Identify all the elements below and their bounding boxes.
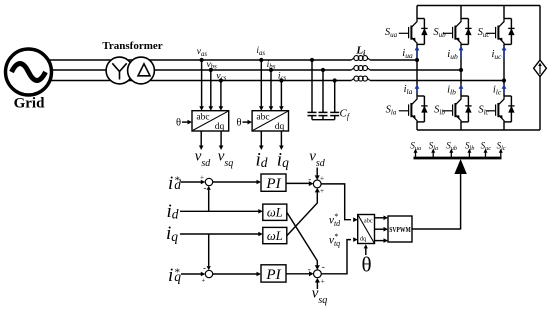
label i_la	[404, 84, 413, 96]
svg-text:i*d: i*d	[168, 173, 181, 194]
wire theta to U3	[364, 244, 368, 255]
svg-text:ibs: ibs	[267, 60, 276, 71]
PI controller PI1	[261, 174, 286, 192]
label v_sd	[195, 149, 212, 170]
node tap v_as on phase-a	[200, 58, 204, 62]
current arrow i_ua	[415, 46, 420, 59]
decoupling gain wL2	[263, 227, 287, 243]
svg-text:v*tq: v*tq	[329, 232, 340, 248]
svg-text:-: -	[308, 174, 311, 184]
svg-text:ωL: ωL	[267, 229, 283, 243]
svg-text:iua: iua	[402, 48, 413, 60]
wire U3 to SVPWM phase-a	[375, 216, 389, 221]
label v_sd feedforward	[309, 149, 326, 170]
PI controller PI2	[261, 265, 286, 283]
svg-text:abc: abc	[196, 113, 209, 123]
label i_q	[277, 149, 289, 170]
current source DC link	[534, 60, 547, 77]
wire i_d output of U2	[259, 131, 264, 150]
transistor S_lb with freewheel diode	[443, 96, 472, 122]
wire phase-b inductor to inverter leg b	[370, 69, 461, 71]
capacitor Cf phase-b	[319, 112, 328, 119]
label theta input U2	[236, 118, 241, 129]
svg-text:Sub: Sub	[433, 27, 446, 39]
wire v_sq output of U1	[219, 131, 224, 150]
wire U3 to SVPWM phase-b	[375, 227, 389, 232]
gate signal arrow S_ua	[414, 149, 418, 157]
abc-dq transform U2	[252, 111, 288, 132]
label i_ua	[402, 48, 413, 60]
current arrow i_lb	[459, 84, 464, 93]
label v_tq*	[329, 232, 340, 248]
svg-text:ilb: ilb	[447, 85, 456, 97]
svg-text:Sua: Sua	[410, 141, 421, 153]
label v_sq	[218, 149, 234, 170]
svg-text:Suc: Suc	[481, 141, 492, 153]
wire leg-c lower-IGBT to bottom bus	[503, 122, 505, 130]
wire leg-c top drop	[503, 6, 505, 19]
label theta input U1	[176, 118, 181, 129]
wire leg-a lower-IGBT to bottom bus	[416, 122, 418, 130]
svg-text:ias: ias	[256, 46, 265, 57]
label SUM4 plus	[321, 277, 325, 286]
svg-text:vas: vas	[197, 47, 208, 58]
svg-text:+: +	[320, 173, 324, 182]
label theta input U3	[361, 253, 371, 277]
inductor Li phase-a	[351, 56, 370, 61]
node tap i_bs on phase-b	[269, 68, 273, 72]
label SUM1 minus	[204, 183, 207, 193]
svg-text:Slb: Slb	[434, 105, 445, 117]
label v_sq feedforward	[312, 286, 328, 307]
SVPWM modulator	[388, 216, 412, 242]
svg-text:+: +	[200, 174, 204, 182]
summer SUM2	[205, 270, 212, 277]
label v_as	[197, 47, 208, 58]
label i_as	[256, 46, 265, 57]
label S_la	[386, 105, 397, 117]
svg-text:Suc: Suc	[478, 27, 491, 39]
svg-text:PI: PI	[265, 267, 281, 283]
node phase-a / leg-a junction	[415, 58, 419, 62]
svg-text:Slb: Slb	[465, 141, 474, 153]
label SUM2 plus	[201, 276, 205, 284]
svg-text:SVPWM: SVPWM	[389, 226, 411, 234]
svg-text:iuc: iuc	[491, 49, 502, 61]
svg-text:dq: dq	[215, 122, 225, 132]
svg-text:iq: iq	[277, 149, 289, 170]
svg-text:θ: θ	[361, 253, 371, 277]
node junction cap-c on phase-c	[333, 78, 337, 82]
transistor S_la with freewheel diode	[399, 96, 428, 122]
wire v_bs sense down to abc-dq block U1	[209, 70, 214, 111]
wire leg-a phase to lower IGBT	[416, 60, 418, 96]
wire leg-c phase to lower IGBT	[503, 81, 505, 97]
gate signal arrow S_uc	[484, 149, 488, 157]
label i_q* reference	[168, 265, 181, 286]
svg-text:-: -	[204, 183, 207, 193]
label i_d	[166, 201, 178, 222]
abc-dq transform U1	[192, 111, 229, 132]
wire capacitor star bus	[312, 119, 335, 121]
label i_lb	[447, 85, 456, 97]
wire SVPWM output to gates	[412, 174, 461, 230]
current arrow i_uc	[502, 46, 507, 59]
svg-text:abc: abc	[256, 113, 269, 123]
inductor Li phase-b	[351, 66, 370, 71]
gate signal arrow S_lb	[467, 149, 471, 157]
svg-text:Sla: Sla	[429, 141, 438, 153]
svg-text:+: +	[320, 186, 324, 195]
label SUM3 plus top	[320, 173, 324, 182]
summer SUM3	[313, 180, 321, 188]
label SUM3 minus	[308, 174, 311, 184]
label SUM1 plus	[200, 174, 204, 182]
svg-text:Grid: Grid	[14, 96, 45, 112]
label S_ua	[385, 27, 398, 39]
svg-text:-: -	[322, 261, 325, 271]
transistor S_ua with freewheel diode	[399, 19, 428, 45]
label S_la gate	[429, 141, 438, 153]
wire v_as sense down to abc-dq block U1	[199, 60, 204, 111]
current arrow i_la	[415, 84, 420, 93]
svg-text:iq: iq	[166, 223, 178, 244]
label SUM4 minus right	[322, 261, 325, 271]
label i_uc	[491, 49, 502, 61]
wire leg-b top drop	[460, 6, 462, 19]
transistor S_ub with freewheel diode	[443, 19, 472, 45]
svg-text:dq: dq	[360, 236, 367, 243]
wire theta to U2	[243, 120, 253, 125]
label S_lc gate	[497, 141, 506, 153]
node phase-c / leg-c junction	[502, 78, 506, 82]
inductor Li phase-c	[351, 76, 370, 81]
wire PI2 to SUM4	[286, 271, 314, 276]
label Li	[355, 44, 366, 57]
wire v_sq into SUM4	[315, 278, 320, 289]
wire SUM4 output v_tq*	[321, 237, 357, 273]
wire PI1 to SUM3	[286, 181, 313, 186]
svg-text:Transformer: Transformer	[102, 40, 162, 52]
label i_d	[255, 149, 267, 170]
node tap i_as on phase-a	[259, 58, 263, 62]
capacitor Cf phase-a	[308, 112, 317, 119]
wire leg-b phase to lower IGBT	[460, 70, 462, 96]
wire theta to U1	[182, 120, 192, 125]
node tap v_bs on phase-b	[209, 68, 213, 72]
wire SUM3 output v_td*	[321, 184, 358, 222]
wire DC top bus	[417, 5, 540, 7]
label S_ub	[433, 27, 446, 39]
label v_bs	[206, 60, 217, 71]
dq-abc transform U3	[358, 215, 375, 244]
svg-text:+: +	[321, 277, 325, 286]
svg-text:iub: iub	[447, 49, 458, 61]
label i_bs	[267, 60, 276, 71]
wire phase-a from grid to inductor La	[40, 59, 351, 61]
wire i_cs sense down to abc-dq block U2	[279, 81, 284, 111]
wire SUM1 to PI1	[213, 180, 261, 185]
label Cf	[340, 108, 351, 122]
wire i_q output of U2	[279, 131, 284, 150]
wire phase-c from grid to inductor Lc	[40, 80, 351, 82]
svg-text:vsq: vsq	[218, 149, 234, 170]
label S_lb gate	[465, 141, 474, 153]
wire DC link right lower	[539, 77, 541, 130]
wire phase-b from grid to inductor Lb	[40, 69, 351, 71]
current arrow i_ub	[459, 46, 464, 59]
wire i_as sense down to abc-dq block U2	[259, 60, 264, 111]
label i_ub	[447, 49, 458, 61]
label S_lb	[434, 105, 445, 117]
capacitor Cf phase-c	[330, 112, 339, 119]
label S_uc gate	[481, 141, 492, 153]
svg-text:+: +	[201, 276, 205, 284]
wire i_d* to summer SUM1	[181, 180, 205, 185]
gate bus arrow	[454, 159, 466, 174]
svg-text:ics: ics	[278, 71, 287, 82]
svg-text:vbs: vbs	[206, 60, 217, 71]
wire cap-c lead	[334, 81, 336, 113]
svg-text:i*q: i*q	[168, 265, 181, 286]
svg-text:Sua: Sua	[385, 27, 398, 39]
node phase-b / leg-b junction	[459, 68, 463, 72]
svg-text:v*td: v*td	[329, 212, 341, 228]
AC source Grid	[6, 49, 52, 95]
svg-text:vsd: vsd	[309, 149, 326, 170]
label i_cs	[278, 71, 287, 82]
label i_lc	[493, 85, 502, 97]
svg-text:θ: θ	[236, 118, 241, 129]
wire phase-c inductor to inverter leg c	[370, 80, 504, 82]
label S_ub gate	[446, 141, 457, 153]
svg-text:-: -	[308, 264, 311, 274]
svg-text:Slc: Slc	[478, 105, 489, 117]
label SUM3 plus bottom	[320, 186, 324, 195]
svg-text:PI: PI	[265, 176, 281, 192]
label S_ua gate	[410, 141, 421, 153]
label Transformer	[102, 40, 162, 52]
wire U3 to SVPWM phase-c	[375, 238, 389, 243]
wire leg-a upper-IGBT to phase-a	[416, 44, 418, 60]
svg-text:Sub: Sub	[446, 141, 457, 153]
label v_cs	[216, 71, 226, 82]
label i_q	[166, 223, 178, 244]
node tap i_cs on phase-c	[279, 78, 283, 82]
svg-text:Cf: Cf	[340, 108, 351, 122]
wire SUM2 to PI2	[213, 272, 261, 277]
svg-text:dq: dq	[275, 122, 285, 132]
label S_lc	[478, 105, 489, 117]
svg-text:Sla: Sla	[386, 105, 397, 117]
transistor S_lc with freewheel diode	[486, 96, 515, 122]
wire cap-b lead	[322, 70, 324, 112]
wire leg-b upper-IGBT to phase-b	[460, 44, 462, 70]
svg-text:vcs: vcs	[216, 71, 226, 82]
node junction cap-b on phase-b	[321, 68, 325, 72]
gate signal arrow S_la	[431, 149, 435, 157]
label Grid	[14, 96, 45, 112]
wire i_q row to wL2	[180, 232, 263, 237]
summer SUM4	[314, 270, 322, 278]
wire i_q feedback down to SUM2	[207, 234, 211, 270]
svg-text:Slc: Slc	[497, 141, 506, 153]
wire leg-b lower-IGBT to bottom bus	[460, 122, 462, 130]
wire leg-c upper-IGBT to phase-c	[503, 44, 505, 80]
svg-text:ωL: ωL	[267, 206, 283, 220]
svg-text:ilc: ilc	[493, 85, 502, 97]
wire DC link right upper	[539, 6, 541, 61]
wire v_sd output of U1	[199, 131, 204, 150]
svg-text:θ: θ	[176, 118, 181, 129]
wire wL2 cross to SUM3	[287, 188, 320, 236]
wire i_d row to wL1	[180, 209, 263, 214]
wire v_sd into SUM3	[315, 168, 320, 181]
current arrow i_lc	[502, 84, 507, 93]
wire i_q* to summer SUM2	[181, 272, 205, 277]
wire wL1 cross to SUM4	[287, 212, 320, 270]
label v_td*	[329, 212, 341, 228]
svg-text:ila: ila	[404, 84, 413, 96]
transformer T1 primary winding (Y)	[106, 57, 133, 84]
svg-text:-: -	[203, 263, 206, 273]
wire i_bs sense down to abc-dq block U2	[269, 70, 274, 111]
node junction cap-a on phase-a	[310, 58, 314, 62]
label i_d* reference	[168, 173, 181, 194]
wire leg-a top drop	[416, 6, 418, 19]
summer SUM1	[205, 178, 212, 185]
wire cap-a lead	[311, 60, 313, 112]
svg-text:vsq: vsq	[312, 286, 328, 307]
label S_uc	[478, 27, 491, 39]
svg-text:id: id	[166, 201, 178, 222]
node tap v_cs on phase-c	[219, 78, 223, 82]
gate signal arrow S_ub	[449, 149, 453, 157]
decoupling gain wL1	[263, 204, 287, 220]
wire gate distribution bar	[414, 157, 502, 160]
svg-text:vsd: vsd	[195, 149, 212, 170]
label SUM4 minus left	[308, 264, 311, 274]
svg-text:abc: abc	[364, 218, 373, 225]
label SUM2 minus	[203, 263, 206, 273]
wire i_d feedback up to SUM1	[207, 186, 211, 212]
wire phase-a inductor to inverter leg a	[370, 59, 417, 61]
svg-text:id: id	[255, 149, 267, 170]
transformer T1 secondary winding (delta)	[128, 57, 155, 84]
wire v_cs sense down to abc-dq block U1	[219, 81, 224, 111]
wire DC bottom bus	[417, 129, 540, 131]
transistor S_uc with freewheel diode	[486, 19, 515, 45]
gate signal arrow S_lc	[499, 149, 503, 157]
